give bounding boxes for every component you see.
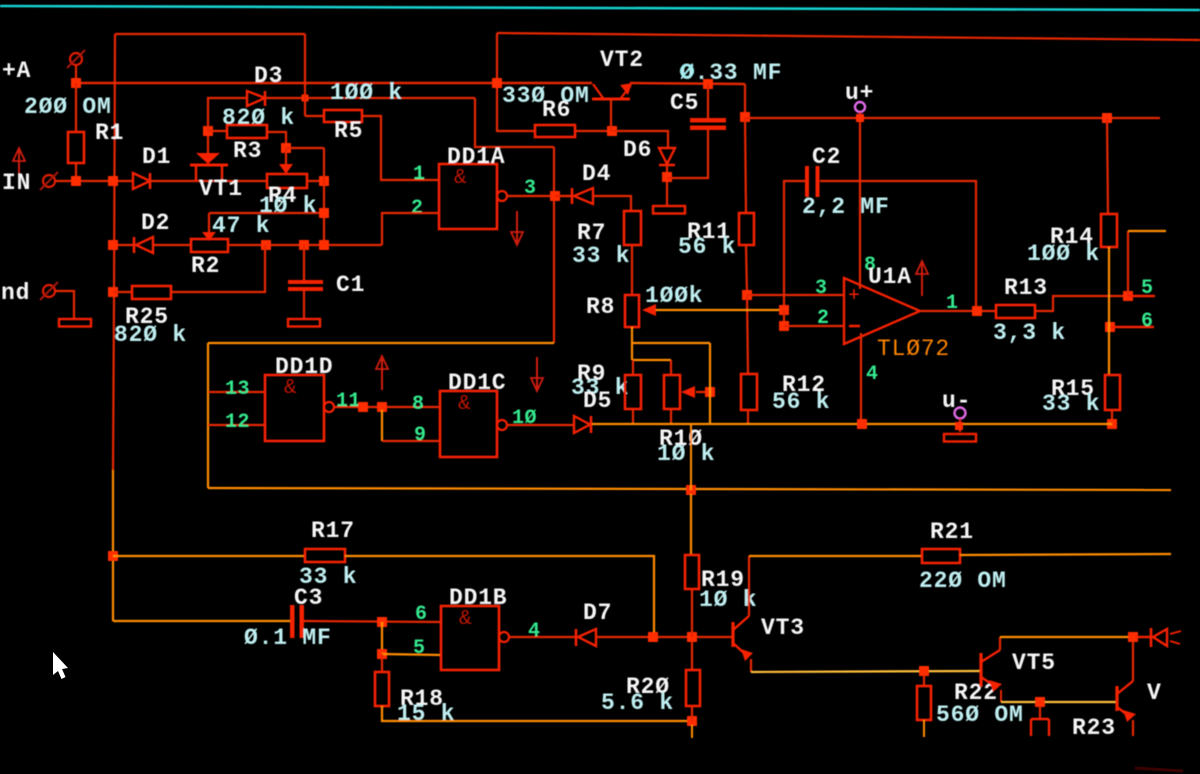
svg-text:R6: R6 (542, 97, 571, 123)
svg-text:+: + (848, 285, 860, 308)
node output junction (972, 306, 982, 316)
resistor R19 (685, 555, 699, 589)
svg-text:R5: R5 (334, 118, 363, 144)
svg-text:5: 5 (1141, 277, 1154, 300)
wire C3 left (113, 620, 290, 622)
wire R15 bottom (1111, 410, 1113, 424)
node pin5 junction (1123, 291, 1133, 301)
node D7 junction (648, 632, 658, 642)
wire R9R10 top tie (633, 359, 671, 361)
node pin11 junction a (358, 402, 368, 412)
resistor R1 (68, 132, 84, 163)
wire R20 top (691, 641, 693, 670)
wire R17 right (345, 556, 654, 637)
svg-text:D2: D2 (141, 210, 170, 236)
wire pin12 (208, 424, 265, 426)
svg-text:D7: D7 (583, 600, 612, 626)
capacitor C5 (690, 118, 726, 123)
wire R17 left (113, 555, 305, 557)
wire R25 right (171, 245, 265, 292)
ground C1 (288, 319, 320, 327)
wire pin9 drop (381, 410, 383, 441)
node R17 junction (108, 551, 118, 561)
resistor R15 (1105, 375, 1120, 410)
node wiper-x324 junction (319, 208, 329, 218)
wire pin5 up (1127, 231, 1129, 296)
capacitor C1 (288, 280, 323, 284)
wire u- stem (959, 418, 961, 432)
bubble DD1B output (499, 632, 509, 642)
node D2 junction (108, 240, 118, 250)
terminal +A (70, 53, 82, 65)
resistor R8 (625, 295, 639, 327)
ground u- (944, 434, 976, 442)
wire R2 wiper drop (208, 213, 210, 232)
wire top-left box horizontal (115, 33, 305, 35)
svg-text:R8: R8 (586, 294, 615, 320)
wire R4 bypass (286, 147, 324, 149)
wire C3 right (304, 621, 441, 622)
node R10 wiper junction (705, 387, 715, 397)
wire R5 left (305, 115, 324, 117)
wire R22 bottom (923, 720, 925, 737)
wire R4 right (307, 180, 324, 182)
svg-text:2,2 MF: 2,2 MF (802, 194, 890, 220)
wire R20 bottom (691, 706, 693, 721)
svg-text:2: 2 (817, 307, 830, 330)
resistor R3 (227, 125, 267, 138)
node R18 line junction (687, 716, 697, 726)
wire +A bus right segment (630, 83, 745, 84)
wire D6 top (612, 131, 668, 148)
transistor VT5 (979, 653, 982, 687)
resistor R14 (1101, 214, 1117, 247)
node R25 riser junction (261, 240, 271, 250)
wire R10 top stem (670, 360, 672, 375)
bubble DD1D output (324, 402, 334, 412)
wire pin3 (507, 195, 572, 197)
node R19 base junction (687, 632, 697, 642)
resistor R5 (324, 110, 362, 122)
wire opamp pin2 (784, 325, 844, 327)
wire R21 right (960, 554, 1171, 555)
node pin11 junction b (377, 402, 387, 412)
node R15 bottom junction (1107, 419, 1117, 429)
wire R14 top (1107, 118, 1108, 214)
wire long left vertical upper (113, 34, 115, 470)
ground gnd terminal bar (59, 319, 91, 327)
wire D6 bottom (666, 165, 668, 206)
wire R9 bottom stem (632, 409, 634, 424)
wire R13 right (1035, 296, 1128, 311)
node R23 junction (1035, 697, 1045, 707)
wire R12 bottom (747, 410, 749, 424)
svg-text:3: 3 (815, 277, 828, 300)
wire R11 bottom (746, 245, 747, 295)
svg-text:8: 8 (412, 393, 425, 416)
node pin2 junction (779, 321, 789, 331)
node u- junction (955, 422, 963, 430)
wire u+ stem (859, 112, 861, 118)
svg-text:9: 9 (414, 424, 427, 447)
wire C2 right feedback (820, 181, 976, 311)
wire C1 top (303, 245, 305, 280)
wire +A bus (76, 82, 592, 84)
svg-text:12: 12 (225, 411, 250, 434)
node u+ junction (856, 114, 864, 122)
op-amp U1A (844, 278, 920, 344)
svg-text:DD1D: DD1D (275, 354, 333, 380)
resistor R2 (191, 239, 228, 252)
wire wiper riser (709, 343, 711, 424)
resistor R17 (305, 549, 345, 562)
wire orange loop top (208, 342, 554, 344)
svg-text:Ø.1 MF: Ø.1 MF (244, 625, 332, 651)
wire R1 top (75, 83, 77, 132)
svg-text:13: 13 (225, 378, 250, 401)
wire pin8 supply (859, 122, 861, 289)
wire R8 to R10 wiper riser (632, 342, 710, 344)
gate DD1D (265, 375, 324, 441)
arrow R2 wiper (202, 232, 216, 241)
node x324 junction (319, 240, 329, 250)
arrow R10 wiper (681, 386, 695, 398)
diode D7 (575, 629, 578, 646)
svg-text:R23: R23 (1072, 715, 1116, 741)
wire D2 left (113, 244, 134, 246)
bubble DD1A output (497, 191, 507, 201)
wire wiper to pin2 (783, 310, 785, 326)
resistor R9 (625, 375, 641, 409)
svg-text:6: 6 (1141, 310, 1154, 333)
wire opamp output (920, 310, 996, 312)
svg-text:D3: D3 (254, 63, 283, 89)
wire long left vertical lower (112, 470, 114, 621)
resistor R25 (132, 286, 171, 299)
wire R10 wiper (696, 391, 710, 393)
wire R8 bottom (631, 327, 633, 360)
svg-text:DD1B: DD1B (449, 585, 507, 611)
wire R3 left (208, 130, 227, 132)
svg-text:2ØØ OM: 2ØØ OM (24, 94, 112, 120)
svg-text:U1A: U1A (868, 264, 912, 290)
node +A junction (71, 78, 81, 88)
wire D7 right (596, 636, 733, 638)
resistor R13 (996, 305, 1035, 318)
svg-text:R13: R13 (1004, 275, 1048, 301)
wire +A stem (75, 65, 77, 83)
faint reflection (1135, 768, 1183, 771)
transistor V (1115, 686, 1118, 711)
wire R19 bottom (691, 589, 693, 637)
svg-text:R1: R1 (95, 120, 124, 146)
svg-text:R2: R2 (191, 253, 220, 279)
svg-text:DD1A: DD1A (447, 144, 505, 170)
svg-text:56Ø OM: 56Ø OM (936, 702, 1024, 728)
svg-text:R3: R3 (233, 138, 262, 164)
resistor R11 (739, 213, 754, 245)
wire below junction (691, 725, 693, 738)
terminal IN (43, 175, 55, 187)
node R25 junction (108, 287, 118, 297)
svg-text:3,3 k: 3,3 k (993, 320, 1066, 346)
svg-text:82Ø k: 82Ø k (222, 105, 295, 131)
wire pin4 (509, 636, 576, 638)
diode D1 (133, 173, 150, 189)
svg-text:C5: C5 (670, 90, 699, 116)
terminal gnd (43, 285, 55, 297)
svg-text:VT3: VT3 (761, 615, 805, 641)
node R4 right junction (319, 176, 329, 186)
svg-text:4: 4 (866, 363, 879, 386)
wire C2 left (784, 181, 805, 310)
wire pin9 (382, 440, 440, 442)
svg-text:C3: C3 (294, 585, 323, 611)
node R3 corner junction (281, 143, 291, 153)
resistor R22 (917, 686, 931, 720)
svg-text:3: 3 (524, 177, 537, 200)
svg-text:R21: R21 (930, 519, 974, 545)
wire pin13 (208, 391, 265, 393)
wire C1 bottom (303, 291, 305, 319)
svg-text:11: 11 (336, 390, 361, 413)
svg-text:&: & (459, 608, 472, 631)
svg-text:5.6 k: 5.6 k (601, 690, 674, 716)
bubble DD1C output (497, 420, 507, 430)
svg-text:5: 5 (413, 637, 426, 660)
arrow up at U1A (921, 263, 923, 296)
wire pin10 (507, 424, 574, 426)
svg-text:VT5: VT5 (1012, 650, 1056, 676)
node pin6 net junction (377, 617, 387, 627)
resistor R21 (922, 549, 960, 563)
diode D4 (571, 188, 574, 204)
resistor R7 (624, 211, 641, 245)
wire C5 bottom (667, 130, 708, 178)
node pin3 junction (550, 191, 560, 201)
wire VT5 collector line (1000, 636, 1133, 638)
wire long bus (208, 488, 1171, 490)
svg-text:u-: u- (942, 388, 971, 414)
wire R10 bottom stem (670, 409, 672, 424)
svg-text:nd: nd (1, 280, 30, 306)
node C5 top junction (703, 79, 713, 89)
capacitor C2 (805, 166, 809, 197)
svg-text:V: V (1147, 680, 1162, 706)
wire R9 top stem (632, 360, 634, 375)
wire R11 top (745, 118, 746, 213)
node pin4 bus junction (857, 419, 867, 429)
mouse cursor (53, 652, 68, 679)
wire R4 wiper (285, 148, 287, 164)
svg-text:1Ø k: 1Ø k (657, 441, 715, 467)
arrow R8 wiper (642, 304, 656, 316)
svg-text:1Ø: 1Ø (512, 407, 537, 430)
node R3-D3-VT1 junction (203, 126, 213, 136)
diode D3 (247, 91, 265, 106)
wire D2 to R2 (153, 244, 191, 246)
wire pin5 wire (382, 654, 441, 655)
wire VT3 to VT5 base (751, 671, 981, 672)
arrow R4 wiper (279, 164, 293, 174)
wire D4 right (593, 196, 631, 211)
wire R18 stem top (381, 654, 383, 672)
arrow input up (18, 150, 20, 176)
wire pin5 drop (381, 622, 383, 654)
wire top stub (1128, 230, 1166, 232)
resistor R23 partial (1031, 718, 1049, 720)
resistor R6 (535, 125, 575, 137)
wire bus tie riser (690, 424, 692, 490)
diode D5 (574, 416, 590, 433)
transistor VT3 (731, 622, 734, 647)
wire bus corner to u+ rail (744, 84, 746, 117)
svg-text:VT1: VT1 (199, 176, 243, 202)
svg-text:C1: C1 (336, 272, 365, 298)
node IN-R1 junction (71, 176, 81, 186)
cursor crosshair terminal (681, 65, 693, 77)
resistor R20 (686, 670, 700, 706)
node u+ rail left junction (740, 112, 750, 122)
capacitor C3 (290, 605, 295, 638)
transistor VT1 (196, 153, 220, 164)
wire opamp pin3 (747, 294, 844, 296)
gate DD1B (441, 606, 499, 670)
svg-text:D1: D1 (142, 144, 171, 170)
svg-text:1ØØ k: 1ØØ k (330, 80, 403, 106)
svg-text:56 k: 56 k (772, 389, 830, 415)
gate DD1A (439, 164, 497, 229)
arrow down below pin3 (516, 211, 518, 243)
svg-text:2: 2 (411, 197, 424, 220)
gate DD1C (440, 391, 497, 457)
node LED junction (1128, 632, 1138, 642)
resistor R12 (741, 374, 757, 410)
arrow down DD1C (536, 357, 538, 389)
svg-text:D4: D4 (582, 161, 611, 187)
transistor VT2 (592, 98, 630, 101)
wire R3 right (267, 132, 286, 148)
svg-text:33 k: 33 k (1042, 391, 1100, 417)
wire 100k elbow (475, 98, 554, 147)
svg-text:4: 4 (528, 620, 541, 643)
svg-text:DD1C: DD1C (448, 370, 506, 396)
node C1 junction (299, 240, 309, 250)
wire pin3 riser (553, 147, 555, 343)
wire D3 right / 100k line (265, 97, 475, 99)
svg-text:VT2: VT2 (600, 47, 644, 73)
svg-text:1: 1 (413, 163, 426, 186)
svg-text:u+: u+ (845, 80, 874, 106)
wire R1 bottom (75, 163, 77, 181)
node R14 junction (1102, 113, 1112, 123)
svg-text:15 k: 15 k (397, 701, 455, 727)
wire R6 right (575, 130, 612, 132)
wire R25 left (113, 291, 132, 293)
svg-text:22Ø OM: 22Ø OM (919, 568, 1007, 594)
resistor R10 (664, 375, 680, 409)
wire R7 to R8 (631, 245, 633, 295)
wire pin5 stub (1128, 295, 1155, 297)
wire R23 stem (1039, 706, 1041, 719)
node pin3 net junction (742, 290, 752, 300)
svg-text:D6: D6 (623, 137, 652, 163)
svg-text:56 k: 56 k (678, 234, 736, 260)
wire R5 right to pin1 (362, 116, 439, 180)
wire pin6 stub (1110, 326, 1154, 328)
wire orange loop left (207, 343, 209, 488)
resistor R4 (267, 174, 307, 188)
svg-text:&: & (284, 377, 297, 400)
wire R2 wiper line (209, 212, 324, 214)
wire vertical x305 (304, 34, 306, 116)
node +A x497 junction (492, 78, 502, 88)
wire R18 bottom (382, 706, 692, 721)
svg-text:&: & (458, 393, 471, 416)
wire R2 to pin2 riser (228, 244, 382, 246)
wire IN (55, 180, 132, 182)
ground D6 (653, 206, 685, 214)
wire VT1 gate riser (207, 131, 209, 153)
diode VD right (1150, 628, 1153, 647)
wire u+ rail (745, 117, 1160, 119)
wire R12 top (747, 295, 748, 374)
wire pin2 (382, 213, 439, 245)
svg-text:Ø.33 MF: Ø.33 MF (680, 60, 782, 86)
wire R22 top (923, 675, 925, 686)
wire pin4 supply (860, 333, 862, 424)
wire R6 left riser (497, 83, 535, 131)
top bus red line (497, 33, 1200, 40)
node D6 junction (662, 172, 672, 182)
svg-text:IN: IN (2, 170, 31, 196)
diode D2 (136, 237, 153, 253)
node R22 junction (919, 666, 929, 676)
arrow up DD1D (381, 358, 383, 390)
terminal u- (955, 408, 966, 419)
node VT2 base junction (607, 126, 617, 136)
diode D6 (659, 148, 675, 164)
node pin6 junction (1105, 322, 1115, 332)
node pin5 net junction (377, 649, 387, 659)
svg-text:TLØ72: TLØ72 (877, 336, 950, 362)
svg-text:82Ø k: 82Ø k (114, 322, 187, 348)
wire gnd (55, 291, 74, 319)
svg-text:33 k: 33 k (572, 243, 630, 269)
svg-text:6: 6 (415, 603, 428, 626)
svg-text:1ØØ k: 1ØØ k (1027, 241, 1100, 267)
svg-text:47 k: 47 k (212, 213, 270, 239)
terminal u+ (855, 102, 865, 112)
svg-text:D5: D5 (583, 388, 612, 414)
wire D4 left (555, 195, 572, 197)
wire R8 wiper line (656, 309, 784, 311)
wire D3 left (208, 98, 247, 131)
wire u- bus (592, 423, 1112, 425)
wire R14 to R15 (1108, 247, 1110, 375)
node wiper junction (779, 305, 789, 315)
wire R19 top (690, 494, 692, 555)
wire D1 to R4 (150, 180, 267, 182)
screen top cyan line (0, 6, 1200, 10)
svg-text:R17: R17 (311, 518, 355, 544)
svg-text:+A: +A (2, 58, 31, 84)
wire R21 left (749, 555, 922, 557)
wire VT5 emitter line (1001, 701, 1117, 703)
svg-text:&: & (454, 167, 467, 190)
node IN-vertical junction (108, 176, 118, 186)
node bus junction (686, 485, 696, 495)
